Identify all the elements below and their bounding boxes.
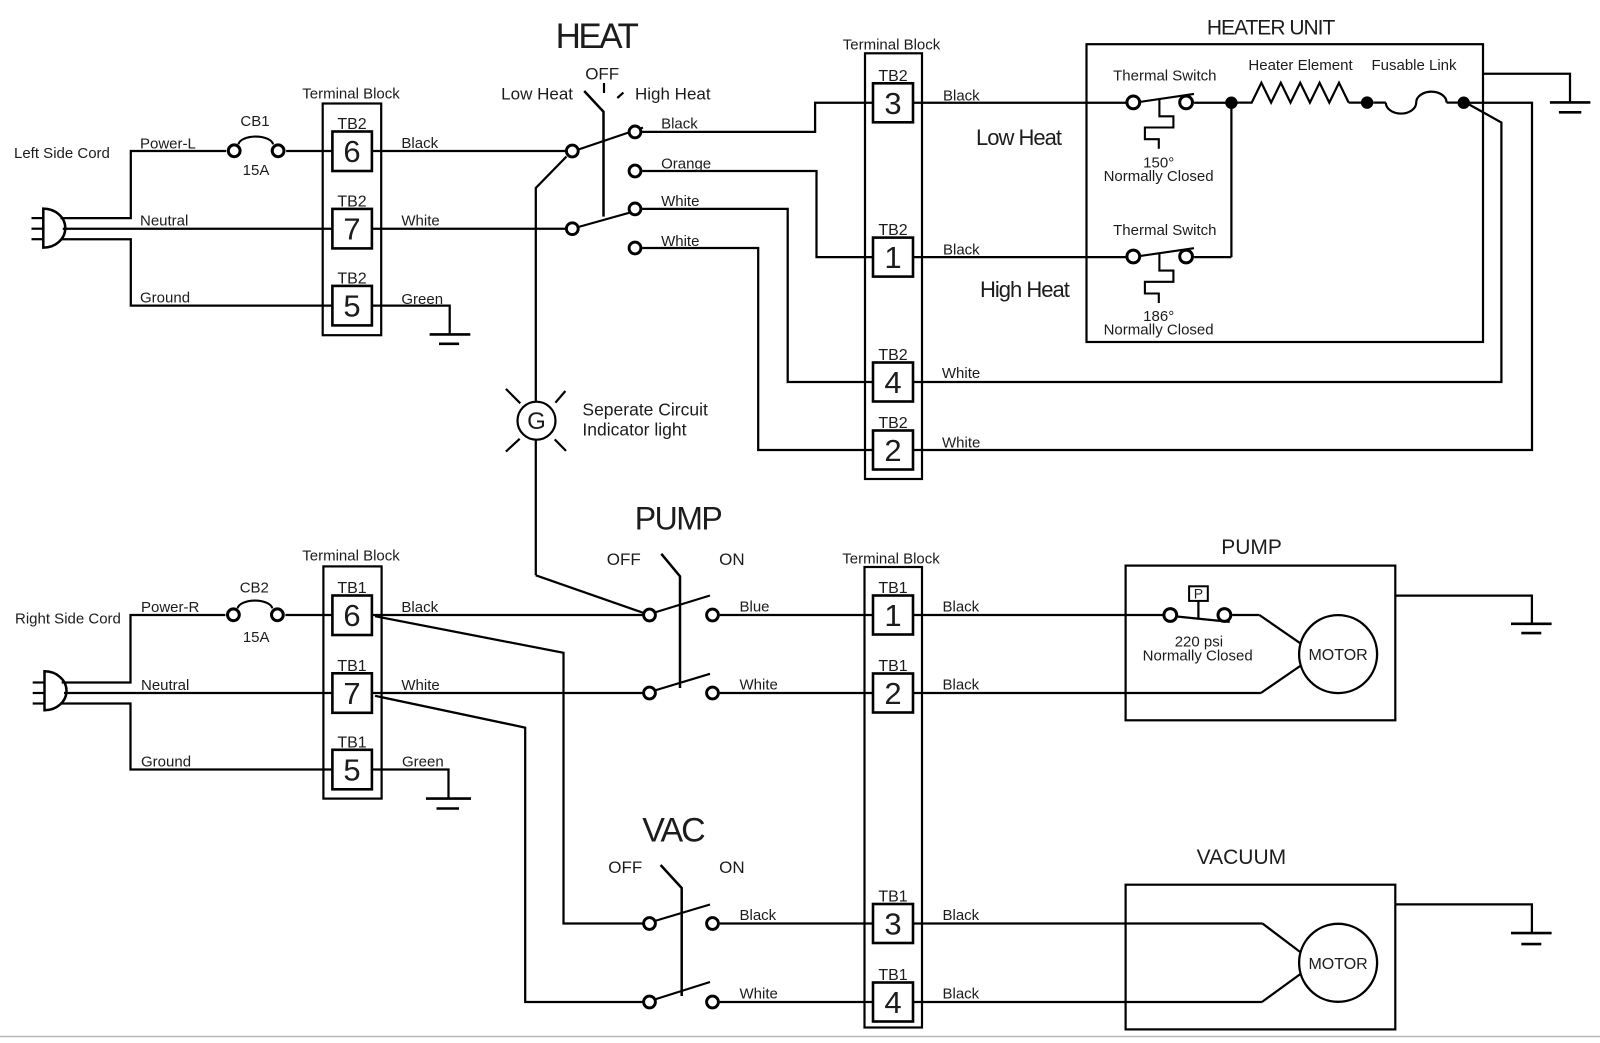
heat switch high-heat tick — [617, 93, 623, 98]
svg-text:HEAT: HEAT — [556, 17, 639, 56]
wire TB2-3 to thermal switch 150 — [913, 102, 1133, 104]
svg-text:Low Heat: Low Heat — [976, 125, 1062, 150]
wire TB2-6 to heat switch pole1 — [372, 150, 572, 152]
heat switch pole2 common contact — [566, 223, 578, 235]
vac switch pole1 common contact — [644, 918, 656, 930]
svg-text:PUMP: PUMP — [1221, 536, 1282, 559]
svg-text:Normally Closed: Normally Closed — [1104, 168, 1214, 185]
svg-text:TB1: TB1 — [878, 889, 907, 906]
wire TB1-7 tap to vac switch pole2 — [375, 696, 650, 1002]
wire TB1-3 to vacuum box — [913, 922, 1263, 924]
wire Ground from plug to TB2-5 — [61, 239, 333, 305]
heat switch contact white (high) — [629, 242, 641, 254]
junction node A (dot) — [1225, 97, 1237, 109]
wire vacuum box to ground — [1395, 904, 1532, 933]
pump switch lever — [661, 554, 680, 688]
plug P2 right side cord — [33, 671, 67, 710]
svg-text:Terminal Block: Terminal Block — [302, 548, 400, 565]
wire TB1-3 into vacuum motor — [1263, 924, 1301, 952]
svg-text:4: 4 — [884, 365, 901, 400]
svg-text:VACUUM: VACUUM — [1197, 846, 1286, 869]
svg-text:Black: Black — [943, 907, 980, 924]
svg-text:TB2: TB2 — [878, 222, 907, 239]
svg-text:Seperate Circuit: Seperate Circuit — [582, 399, 708, 419]
terminal TB1-2 — [873, 658, 913, 713]
terminal TB1-3 — [873, 889, 913, 944]
wire TB1-1 to pump box — [913, 614, 1170, 616]
wire TB1-6 to pump switch pole1 — [372, 614, 650, 616]
terminal TB1-1 — [873, 580, 913, 635]
thermal switch TS1 arm — [1140, 94, 1195, 102]
svg-text:TB2: TB2 — [878, 415, 907, 432]
wire TB2-4 white return to fusible link node — [913, 105, 1501, 382]
svg-text:5: 5 — [343, 752, 360, 787]
vac switch pole1 arm — [653, 905, 710, 922]
svg-text:Black: Black — [740, 907, 777, 924]
svg-text:ON: ON — [719, 858, 745, 877]
thermal switch TS2 actuator — [1145, 253, 1174, 303]
svg-text:Black: Black — [943, 599, 980, 616]
heat switch lever (off position) — [584, 91, 603, 217]
pump switch pole2 ON contact — [707, 687, 719, 699]
wire CB1 to TB2-6 — [286, 150, 332, 152]
svg-text:TB2: TB2 — [337, 116, 366, 133]
svg-text:White: White — [942, 435, 980, 452]
wire white contact (low) to TB2-4 — [642, 209, 873, 382]
circuit breaker CB1 15A — [228, 137, 284, 157]
wire black vac contact to TB1-3 — [720, 922, 873, 924]
svg-text:TB2: TB2 — [878, 68, 907, 85]
svg-text:Normally Closed: Normally Closed — [1143, 647, 1253, 664]
svg-text:HEATER UNIT: HEATER UNIT — [1207, 17, 1336, 40]
thermal switch TS2 arm — [1140, 248, 1195, 256]
svg-text:Heater Element: Heater Element — [1248, 57, 1353, 74]
svg-text:TB1: TB1 — [878, 580, 907, 597]
svg-text:5: 5 — [343, 289, 360, 324]
terminal TB1-7 — [332, 658, 372, 713]
svg-text:4: 4 — [884, 985, 901, 1020]
wire TB1-7 to pump switch pole2 — [372, 692, 650, 694]
terminal TB2-6 — [332, 116, 372, 171]
svg-text:Indicator light: Indicator light — [582, 420, 686, 440]
wire black contact to TB2-3 — [642, 103, 873, 132]
svg-text:Black: Black — [943, 677, 980, 694]
svg-text:White: White — [401, 677, 439, 694]
circuit breaker CB2 15A — [228, 601, 284, 621]
svg-text:MOTOR: MOTOR — [1308, 956, 1367, 973]
wire blue pump contact to TB1-1 — [720, 614, 873, 616]
svg-text:3: 3 — [884, 907, 901, 942]
wire orange contact to TB2-1 — [642, 171, 873, 257]
heat switch contact orange — [629, 165, 641, 177]
heat switch pole1 arm — [577, 128, 643, 150]
plug P1 left side cord — [32, 209, 66, 248]
wire Ground from plug to TB1-5 — [62, 704, 333, 770]
wire Neutral from plug to TB2-7 — [63, 228, 333, 230]
svg-text:OFF: OFF — [608, 858, 642, 877]
heat switch contact white (low) — [629, 203, 641, 215]
svg-text:2: 2 — [884, 676, 901, 711]
heater element (resistor) — [1231, 83, 1348, 103]
svg-text:15A: 15A — [243, 162, 270, 179]
wire element to node B — [1349, 101, 1367, 103]
vacuum enclosure box — [1126, 885, 1396, 1030]
wire TB1-2 into pump motor — [1261, 665, 1302, 693]
svg-text:Black: Black — [661, 116, 698, 133]
wire TS2 to junction node A — [1194, 103, 1231, 257]
pump switch pole1 common contact — [644, 609, 656, 621]
svg-text:Blue: Blue — [740, 599, 770, 616]
heat switch pole2 arm — [577, 209, 642, 227]
wire pressure switch to pump motor — [1232, 615, 1300, 643]
terminal block TB2 left (outer) — [323, 104, 382, 336]
ground symbol pump — [1511, 624, 1552, 633]
svg-text:Neutral: Neutral — [140, 213, 188, 230]
pressure switch arm — [1178, 617, 1230, 622]
vac switch pole2 arm — [653, 982, 710, 1000]
wire TB1-4 into vacuum motor — [1262, 973, 1302, 1002]
terminal TB2-1 — [873, 222, 913, 277]
svg-text:High Heat: High Heat — [635, 85, 711, 104]
wire TB1-5 green to ground — [372, 770, 449, 799]
pump motor M1 — [1299, 615, 1377, 693]
wire white contact (high) to TB2-2 — [642, 248, 873, 450]
pressure switch 220psi contacts — [1164, 609, 1231, 622]
svg-text:Ground: Ground — [141, 754, 191, 771]
svg-text:PUMP: PUMP — [635, 501, 722, 537]
svg-text:Low Heat: Low Heat — [501, 85, 573, 104]
svg-text:OFF: OFF — [585, 65, 619, 84]
vacuum motor M2 — [1299, 924, 1377, 1002]
svg-text:White: White — [661, 233, 699, 250]
wire TB1-2 to pump box motor — [913, 692, 1261, 694]
svg-text:White: White — [942, 365, 980, 382]
vac switch lever — [661, 865, 682, 996]
wire TB1-6 tap to vac switch pole1 — [375, 616, 650, 923]
pump switch pole2 common contact — [644, 687, 656, 699]
vac switch pole2 ON contact — [707, 996, 719, 1008]
indicator light G (lamp) — [518, 402, 556, 440]
svg-text:Orange: Orange — [661, 156, 711, 173]
pump switch pole1 arm — [653, 596, 710, 614]
svg-text:Thermal Switch: Thermal Switch — [1113, 68, 1216, 85]
terminal TB2-4 — [873, 347, 913, 402]
svg-text:Power-L: Power-L — [140, 136, 196, 153]
thermal switch TS2 186 contacts — [1127, 250, 1193, 263]
fusable link — [1373, 92, 1457, 114]
svg-text:P: P — [1194, 586, 1203, 602]
svg-text:Green: Green — [402, 754, 444, 771]
svg-text:VAC: VAC — [642, 811, 705, 849]
svg-text:TB1: TB1 — [337, 658, 366, 675]
terminal block TB1 right cord (outer) — [323, 566, 381, 798]
svg-text:Ground: Ground — [140, 290, 190, 307]
svg-text:White: White — [740, 677, 778, 694]
wire indicator light G to pump switch pole1 — [536, 440, 650, 615]
terminal TB2-7 — [332, 194, 372, 249]
indicator light rays — [506, 389, 566, 452]
wire white pump contact to TB1-2 — [720, 692, 873, 694]
pump enclosure box — [1126, 566, 1396, 721]
pump switch pole1 ON contact — [707, 609, 719, 621]
svg-text:7: 7 — [343, 212, 360, 247]
scan artifact bottom edge — [0, 1036, 1600, 1038]
wire pump box to ground — [1395, 596, 1532, 624]
terminal TB1-6 — [332, 580, 372, 635]
svg-text:OFF: OFF — [607, 550, 641, 569]
svg-text:MOTOR: MOTOR — [1308, 647, 1367, 664]
svg-text:Black: Black — [943, 88, 980, 105]
thermal switch TS1 150 contacts — [1127, 96, 1193, 109]
vac switch pole2 common contact — [644, 996, 656, 1008]
svg-text:TB2: TB2 — [337, 194, 366, 211]
svg-text:3: 3 — [884, 86, 901, 121]
svg-text:Left Side Cord: Left Side Cord — [14, 145, 110, 162]
terminal TB1-5 — [332, 734, 372, 789]
terminal TB1-4 — [873, 967, 913, 1022]
ground symbol right TB — [426, 799, 471, 809]
svg-text:Black: Black — [401, 599, 438, 616]
svg-text:Black: Black — [943, 986, 980, 1003]
svg-text:White: White — [740, 986, 778, 1003]
svg-text:7: 7 — [343, 676, 360, 711]
terminal TB2-3 — [873, 68, 913, 123]
svg-text:TB2: TB2 — [337, 271, 366, 288]
svg-text:TB2: TB2 — [878, 347, 907, 364]
svg-text:G: G — [527, 408, 546, 435]
svg-text:CB1: CB1 — [240, 113, 269, 130]
svg-text:Green: Green — [401, 291, 443, 308]
wire white vac contact to TB1-4 — [720, 1001, 873, 1003]
thermal switch TS1 actuator — [1145, 99, 1174, 149]
svg-text:Thermal Switch: Thermal Switch — [1113, 222, 1216, 239]
svg-text:CB2: CB2 — [240, 580, 269, 597]
svg-text:Terminal Block: Terminal Block — [302, 86, 400, 103]
terminal block TB2 heater (outer) — [865, 53, 922, 479]
svg-text:6: 6 — [343, 134, 360, 169]
svg-text:Black: Black — [943, 242, 980, 259]
wire Power-L from plug to CB1 — [61, 151, 227, 218]
ground symbol vacuum — [1511, 933, 1552, 944]
svg-text:Terminal Block: Terminal Block — [842, 551, 940, 568]
pump switch pole2 arm — [653, 674, 710, 691]
terminal block TB1 pump-vac (outer) — [865, 567, 923, 1028]
svg-text:Power-R: Power-R — [141, 599, 200, 616]
wire TB2-7 to heat switch pole2 — [372, 228, 572, 230]
ground symbol left TB — [430, 334, 471, 343]
wire TB2-5 green to ground — [372, 306, 450, 335]
svg-text:Right Side Cord: Right Side Cord — [15, 610, 121, 627]
ground symbol heater — [1550, 102, 1591, 112]
junction node C (dot) — [1458, 97, 1470, 109]
svg-text:2: 2 — [884, 433, 901, 468]
wire TB2-2 white return to fusible link node — [913, 103, 1532, 450]
heat switch pole1 common contact — [566, 145, 578, 157]
svg-text:TB1: TB1 — [878, 967, 907, 984]
wire TB2-1 to thermal switch 186 — [913, 256, 1133, 258]
svg-text:TB1: TB1 — [337, 580, 366, 597]
svg-text:White: White — [661, 193, 699, 210]
wire TB1-4 to vacuum box motor — [913, 1001, 1262, 1003]
vac switch pole1 ON contact — [707, 918, 719, 930]
svg-text:Black: Black — [401, 135, 438, 152]
wire heat pole1 to indicator light G — [536, 157, 567, 402]
svg-text:1: 1 — [884, 598, 901, 633]
svg-text:Normally Closed: Normally Closed — [1104, 321, 1214, 338]
terminal TB2-5 — [332, 271, 372, 326]
svg-text:Terminal Block: Terminal Block — [843, 37, 941, 54]
svg-text:Fusable Link: Fusable Link — [1371, 57, 1457, 74]
svg-text:15A: 15A — [243, 629, 270, 646]
svg-text:TB1: TB1 — [337, 734, 366, 751]
svg-text:Neutral: Neutral — [141, 677, 189, 694]
svg-text:1: 1 — [884, 240, 901, 275]
wire heater case to ground — [1483, 74, 1570, 103]
svg-text:White: White — [401, 213, 439, 230]
wire CB2 to TB1-6 — [285, 614, 332, 616]
junction node B (dot) — [1361, 96, 1373, 108]
svg-text:ON: ON — [719, 550, 745, 569]
heat switch OFF tick — [603, 83, 605, 93]
pressure switch P actuator — [1189, 586, 1208, 619]
svg-text:TB1: TB1 — [878, 658, 907, 675]
terminal TB2-2 — [873, 415, 913, 470]
wire TS1 to junction node A — [1194, 102, 1231, 104]
svg-text:6: 6 — [343, 598, 360, 633]
heat switch contact black — [629, 126, 641, 138]
wire Power-R from plug to CB2 — [62, 615, 226, 683]
svg-text:High Heat: High Heat — [980, 277, 1070, 302]
wire Neutral from plug to TB1-7 — [64, 692, 332, 694]
heater unit enclosure box — [1087, 44, 1484, 342]
